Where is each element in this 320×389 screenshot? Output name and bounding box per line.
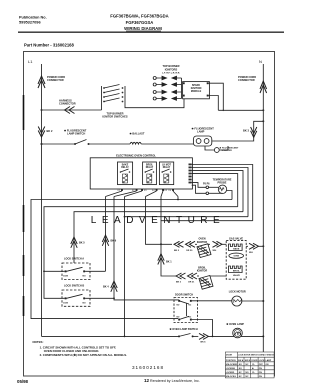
- svg-text:FGF367GGSA: FGF367GGSA: [126, 20, 154, 25]
- oven valve oval: [229, 253, 244, 258]
- svg-text:L1: L1: [28, 59, 33, 64]
- svg-text:WH: WH: [249, 252, 253, 254]
- svg-text:LOCK MOTOR: LOCK MOTOR: [229, 290, 246, 293]
- bake valve solenoid: [229, 244, 243, 251]
- connector pair broil row: [176, 273, 197, 284]
- fluorescent lamp: [192, 127, 215, 147]
- header underline for wiring diagram: [126, 30, 161, 32]
- wire door switch lower row to lamp bus: [192, 320, 213, 337]
- svg-text:5995327096: 5995327096: [19, 20, 41, 25]
- svg-text:L.F. R.F. L.R. R.R.: L.F. R.F. L.R. R.R.: [162, 72, 180, 74]
- wire ballast to fluorescent lamp: [141, 143, 193, 145]
- temperature probe RT1: [209, 179, 232, 200]
- svg-text:05/98: 05/98: [17, 379, 29, 384]
- harness connector: [59, 99, 76, 114]
- svg-text:OVEN: OVEN: [233, 256, 239, 258]
- svg-text:POSITION: POSITION: [226, 360, 236, 362]
- svg-text:FGF367BGWA, FGF367BGDA: FGF367BGWA, FGF367BGDA: [110, 14, 168, 19]
- header horizontal rule: [18, 31, 284, 33]
- wire switch to ballast: [89, 143, 131, 145]
- svg-text:DOOR: DOOR: [226, 354, 233, 356]
- svg-text:LOCKING: LOCKING: [226, 368, 236, 370]
- svg-text:SW A: SW A: [238, 359, 244, 362]
- lock motor switch status table: [225, 352, 274, 378]
- svg-text:BROIL: BROIL: [233, 271, 240, 273]
- svg-text:LK MOT: LK MOT: [162, 165, 171, 167]
- svg-text:NO: NO: [83, 276, 87, 278]
- svg-text:ELECTRONIC OVEN CONTROL: ELECTRONIC OVEN CONTROL: [116, 154, 156, 158]
- frame left edge dark segments: [23, 95, 25, 316]
- wire EOC K1 down to lock A return: [105, 197, 107, 272]
- svg-text:GAS VALVE: GAS VALVE: [229, 237, 243, 240]
- bus wire y207 to lock switch A COM: [44, 207, 238, 299]
- svg-text:NOTES:: NOTES:: [33, 340, 44, 344]
- diagram frame: [24, 52, 275, 377]
- connector bake to valve: [213, 241, 227, 252]
- svg-text:BAKE: BAKE: [122, 164, 129, 167]
- svg-text:CONNECTOR: CONNECTOR: [47, 78, 64, 82]
- wire lamp to N with connector BK-3: [212, 121, 263, 141]
- lock motor M1: [229, 290, 265, 306]
- top burner ignitor switches: [102, 85, 128, 119]
- wire EOC K4 to bake igniter row: [146, 197, 173, 245]
- svg-text:BK 6: BK 6: [201, 342, 207, 344]
- connector BK-9 on lock A return: [102, 235, 117, 246]
- electronic oven control U2: [90, 154, 192, 190]
- svg-text:✱ OVEN LAMP SWITCH: ✱ OVEN LAMP SWITCH: [170, 327, 198, 331]
- broil ignitor label: [197, 266, 208, 272]
- gas valve assembly: [226, 237, 246, 279]
- svg-text:CONNECTOR: CONNECTOR: [59, 102, 76, 106]
- svg-text:UNLOCKG: UNLOCKG: [226, 376, 237, 378]
- relay K1 bake: [118, 162, 133, 185]
- svg-text:NO: NO: [239, 368, 242, 370]
- broil valve solenoid: [229, 266, 243, 273]
- footer: [17, 365, 200, 384]
- svg-text:BK 4: BK 4: [103, 286, 109, 289]
- svg-text:LOCKED: LOCKED: [226, 372, 235, 374]
- lock switch B: [62, 285, 179, 307]
- svg-text:Rendered by LeadVenture, Inc.: Rendered by LeadVenture, Inc.: [150, 379, 200, 383]
- svg-text:LAMP: LAMP: [266, 359, 272, 362]
- svg-text:LOCK MOTOR SWITCH CONTACT STAT: LOCK MOTOR SWITCH CONTACT STATUS: [238, 354, 274, 357]
- spark module U1: [183, 82, 210, 99]
- oven lamp switch: [170, 327, 199, 337]
- svg-text:CONNECTOR: CONNECTOR: [238, 78, 255, 82]
- svg-text:COM: COM: [63, 303, 68, 305]
- EOC bottom terminals: [106, 189, 179, 197]
- relay K3 lock motor: [159, 162, 173, 185]
- bake ignitor E1: [195, 244, 211, 258]
- svg-text:P5 P6: P5 P6: [203, 183, 210, 186]
- wire spark module to N: [209, 83, 224, 110]
- svg-text:BK 1: BK 1: [166, 261, 172, 264]
- connector BK-8 on lock A top feed: [71, 237, 86, 248]
- connector BK-6 lamp feed: [199, 333, 264, 343]
- top burner ignitors label: [162, 64, 180, 74]
- bus wire y212 to lock switch A top: [74, 212, 243, 263]
- junction dots on lower buses: [41, 143, 43, 145]
- svg-text:DOOR: DOOR: [252, 360, 259, 362]
- svg-text:RELAY: RELAY: [163, 166, 171, 169]
- fluorescent lamp switch: [41, 129, 90, 146]
- header publication text: [19, 14, 169, 48]
- bus wire y199 probe return to door circuit: [31, 200, 232, 319]
- svg-text:BK 2: BK 2: [47, 129, 53, 133]
- svg-text:BK 5: BK 5: [79, 242, 85, 245]
- wire EOC K3 down to lamp bus: [124, 197, 126, 337]
- svg-text:STARTER: STARTER: [222, 149, 233, 152]
- bake ignitor label: [197, 238, 208, 244]
- svg-text:DOOR SWITCH: DOOR SWITCH: [175, 293, 193, 296]
- wire EOC K6 down to door switch: [177, 197, 179, 200]
- connector BK-1 on igniter bus: [158, 254, 173, 265]
- svg-text:LAMP SWITCH: LAMP SWITCH: [67, 132, 85, 136]
- svg-text:VALVE: VALVE: [233, 274, 241, 277]
- svg-text:2. COMPONENTS WITH (✱) DO NOT: 2. COMPONENTS WITH (✱) DO NOT APPEAR ON …: [40, 353, 128, 357]
- wire EOC K2 down to lock B return: [113, 197, 115, 299]
- svg-text:IGNITOR SWITCHES: IGNITOR SWITCHES: [102, 115, 127, 119]
- svg-text:NO: NO: [83, 303, 87, 305]
- connector BK-4 lock B return: [103, 281, 117, 292]
- svg-text:✱ FLUORESCENT: ✱ FLUORESCENT: [220, 146, 240, 149]
- svg-text:LOCK: LOCK: [259, 360, 265, 362]
- svg-text:N: N: [259, 59, 262, 64]
- connector pair bake row: [174, 241, 195, 252]
- wire L1 to oven lamp switch: [42, 335, 180, 337]
- wire door switch to lock motor: [192, 300, 232, 302]
- svg-text:IGNITORS: IGNITORS: [165, 67, 178, 71]
- power cord connector L1: [38, 75, 65, 88]
- svg-text:LOCK SWITCH B: LOCK SWITCH B: [64, 285, 84, 288]
- svg-text:PROBE: PROBE: [218, 182, 227, 185]
- relay K2 broil: [143, 162, 157, 185]
- top burner spark gaps: [153, 76, 181, 100]
- svg-text:BK 9: BK 9: [111, 240, 117, 243]
- bus wire y221 to igniter rows: [161, 221, 253, 276]
- svg-text:UNLOCKED: UNLOCKED: [226, 364, 238, 366]
- svg-text:LAMP: LAMP: [197, 130, 205, 134]
- svg-text:SW B: SW B: [245, 360, 251, 362]
- lock switch A: [62, 258, 106, 280]
- door switch: [174, 293, 198, 322]
- EOC pin header: [189, 164, 192, 184]
- svg-text:COM: COM: [63, 276, 68, 278]
- svg-text:BROIL: BROIL: [146, 165, 154, 167]
- wire EOC K6 down (unused stub): [177, 199, 179, 201]
- svg-text:IGNITOR: IGNITOR: [197, 270, 208, 273]
- svg-text:OR 31: OR 31: [188, 282, 195, 284]
- svg-text:RELAY: RELAY: [146, 166, 154, 169]
- wire EOC pin 2: [192, 168, 248, 217]
- wire L1 rail: [41, 64, 43, 336]
- svg-text:NO: NO: [246, 372, 249, 374]
- svg-text:✱ BALLAST: ✱ BALLAST: [130, 132, 145, 136]
- svg-text:✱ OVEN LAMP: ✱ OVEN LAMP: [226, 322, 244, 326]
- notes: [33, 340, 128, 357]
- svg-text:BK 3: BK 3: [243, 129, 249, 133]
- temperature probe terminals P5 P6: [192, 183, 210, 195]
- svg-text:316002168: 316002168: [132, 365, 164, 370]
- oven lamp DS1: [226, 322, 244, 338]
- svg-text:BK 2: BK 2: [174, 250, 180, 252]
- svg-text:WH: WH: [213, 250, 217, 252]
- wire spark gap bus: [181, 78, 183, 99]
- power cord connector N: [238, 75, 267, 93]
- wire burner switches to spark module: [125, 99, 184, 108]
- svg-text:BAKE: BAKE: [233, 248, 240, 251]
- connector BK-2 on L1: [38, 127, 53, 138]
- wire EOC pin 1: [192, 165, 253, 221]
- svg-text:OR 30: OR 30: [186, 250, 193, 252]
- wire N rail: [262, 64, 264, 353]
- wire EOC pin 4: [192, 174, 238, 207]
- svg-text:WIRING DIAGRAM: WIRING DIAGRAM: [124, 26, 162, 31]
- wire valve output to N: [246, 243, 264, 254]
- svg-text:IGNITOR: IGNITOR: [197, 241, 208, 244]
- fluorescent starter: [205, 146, 239, 152]
- broil ignitor E2: [197, 276, 226, 290]
- svg-text:Part Number - 316002168: Part Number - 316002168: [24, 42, 74, 47]
- svg-text:LOCK SWITCH A: LOCK SWITCH A: [64, 258, 84, 261]
- svg-text:NO: NO: [239, 364, 242, 366]
- bus wire y217 to oven lamp feed: [125, 216, 249, 218]
- wire EOC pin 3: [192, 171, 243, 212]
- ballast: [130, 132, 145, 145]
- svg-text:12: 12: [144, 378, 150, 383]
- wire L1 feed to burner switches: [42, 109, 102, 111]
- svg-text:BK 3: BK 3: [176, 282, 182, 284]
- svg-text:MODULE: MODULE: [191, 90, 202, 93]
